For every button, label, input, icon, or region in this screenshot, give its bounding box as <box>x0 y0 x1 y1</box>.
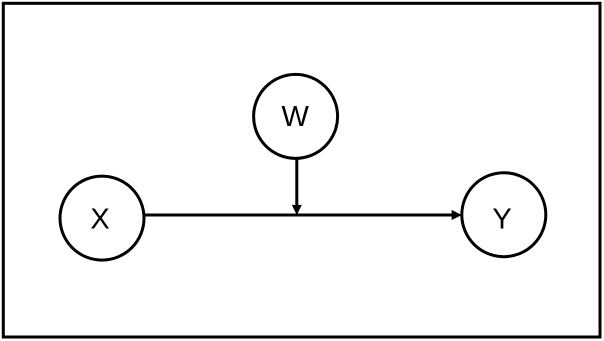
wire X to Y <box>144 214 453 217</box>
node X <box>60 176 144 260</box>
arrowhead onto X-Y path <box>293 206 301 214</box>
node W <box>254 74 338 158</box>
svg-text:X: X <box>90 204 109 236</box>
wire W to X-Y path <box>295 158 298 206</box>
svg-text:W: W <box>282 101 310 133</box>
svg-text:Y: Y <box>492 204 511 236</box>
node Y <box>462 173 546 257</box>
arrowhead into Y <box>452 211 460 219</box>
